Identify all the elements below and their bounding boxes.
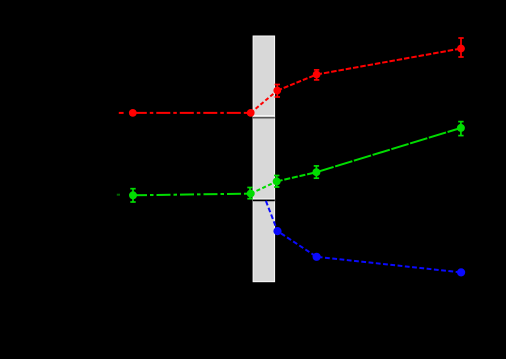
divider level line B (white edge) [253,198,275,200]
divider level line A (dark line) [253,117,275,119]
green marker G4 [312,168,320,176]
barrier bar (gray rectangle) [253,36,275,282]
green marker G5 [457,124,465,132]
red series segment 2 (in-bar diagonal) [251,91,278,113]
green marker G3 [273,177,281,185]
green series pre-dash [117,194,120,196]
red series segment 1 (dash-dot) [133,112,251,114]
green series segment 1 (dash-dot) [133,194,251,196]
red series segment 3 [277,75,316,91]
green series segment 4 [316,128,461,172]
green error bar at G5 [458,122,463,136]
red marker R5 [457,45,465,53]
red marker R4 [313,71,321,79]
blue marker B3 [457,268,465,276]
green marker G2 [247,190,255,198]
green error bar at G3 [274,176,279,188]
divider level line B (black line) [253,199,275,201]
red series segment 4 [317,49,461,75]
green series segment 3 [277,172,317,181]
green marker G1 [129,191,137,199]
blue marker B1 [273,227,281,235]
green error bar at G2 [247,188,252,199]
red series pre-dash [119,112,124,114]
blue series line (dashed polyline) [266,201,461,273]
red error bar at R3 [275,85,280,98]
red error bar at R5 [458,38,463,57]
blue marker B2 [313,253,321,261]
divider level line A (white edge) [253,115,275,117]
green error bar at G4 [314,166,319,178]
red marker R3 [273,87,281,95]
red error bar at R4 [314,70,319,80]
red marker R2 [247,109,255,117]
red marker R1 [129,109,137,117]
green error bar at G1 [130,189,135,202]
green series segment 2 (in-bar diagonal) [251,181,277,193]
